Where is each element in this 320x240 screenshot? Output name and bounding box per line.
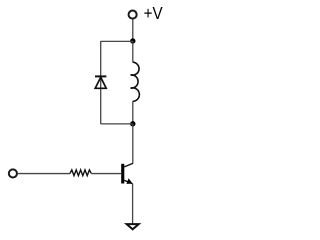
wire bottom rail [101, 123, 133, 125]
wire emitter to ground [132, 184, 134, 224]
diode D1 [95, 76, 106, 88]
wire top junction to inductor [132, 41, 134, 62]
ground [127, 224, 139, 229]
terminal input [9, 169, 17, 177]
inductor L1 [131, 62, 140, 101]
wire collector vertical [132, 124, 134, 164]
wire from +V terminal to top junction [132, 19, 134, 41]
resistor R1 [70, 170, 91, 176]
node top junction [130, 38, 135, 43]
terminal +V [129, 11, 137, 19]
wire resistor to base [91, 173, 121, 175]
wire top rail to diode branch [101, 40, 133, 42]
node bottom junction [130, 121, 135, 126]
wire input to resistor [18, 173, 70, 175]
svg-text:+V: +V [144, 3, 163, 23]
transistor Q1 [121, 163, 133, 184]
wire left branch vertical [100, 41, 102, 124]
wire inductor to bottom junction [132, 101, 134, 124]
